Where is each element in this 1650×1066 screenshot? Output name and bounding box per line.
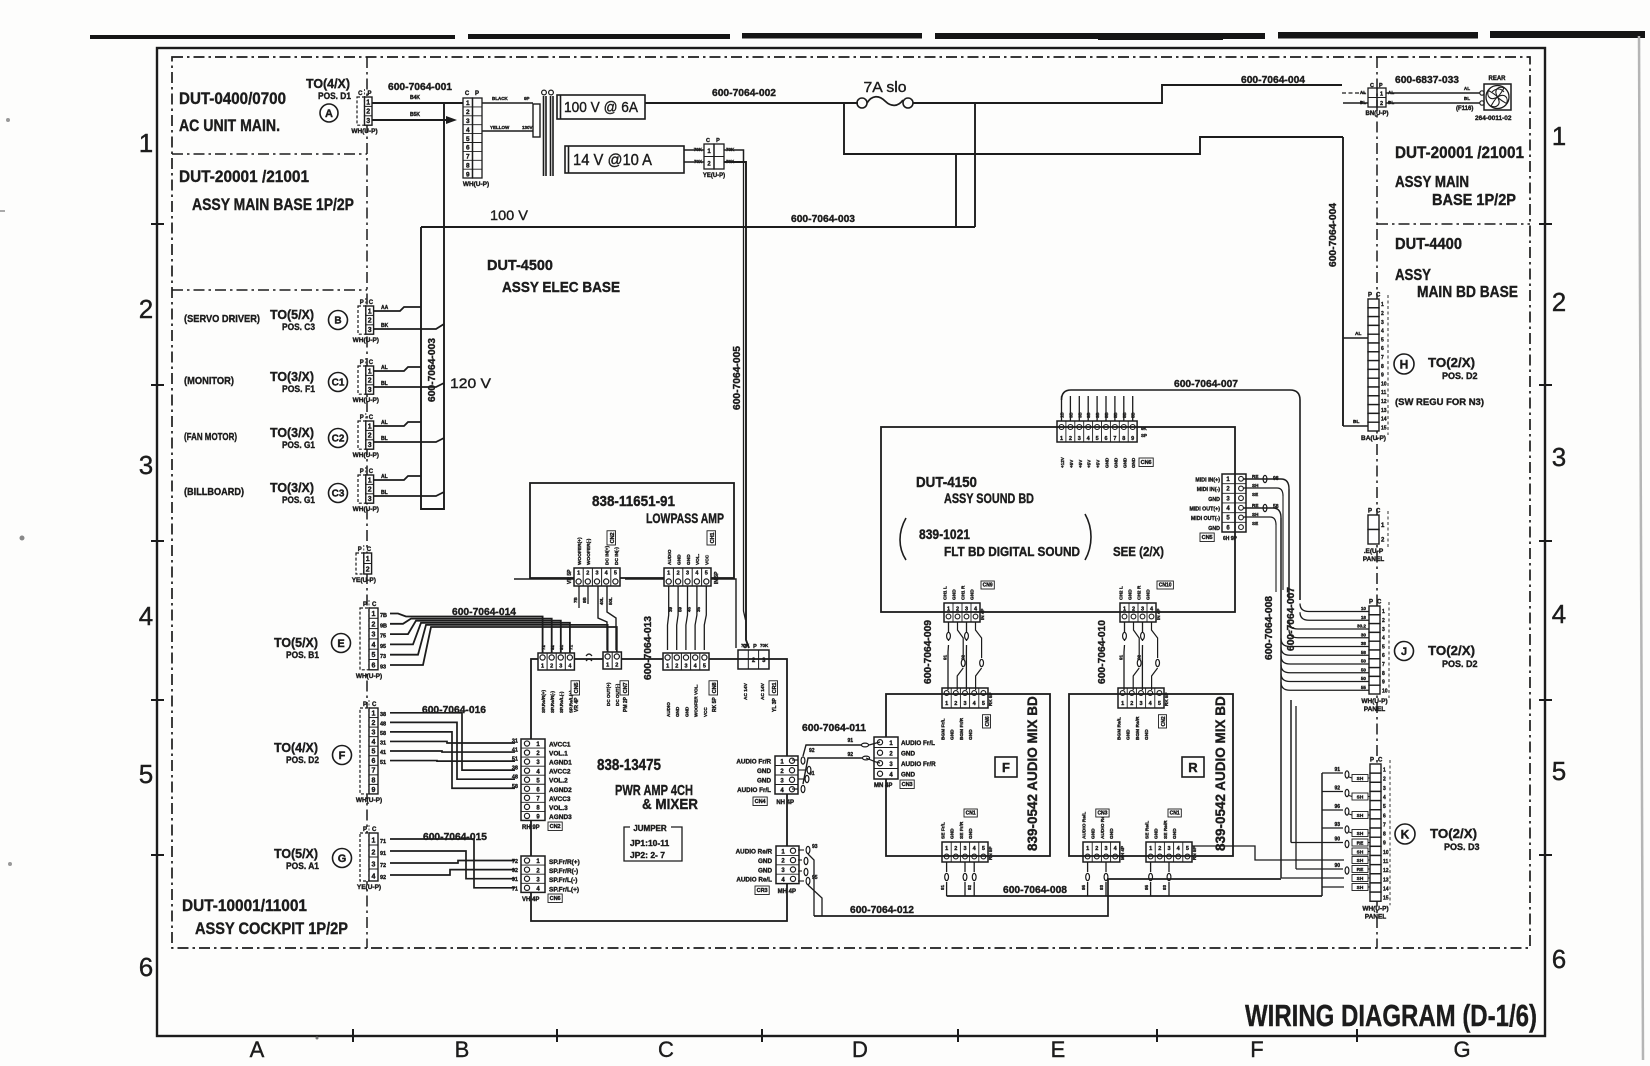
svg-text:1: 1 xyxy=(368,477,372,484)
svg-text:POS. D1: POS. D1 xyxy=(318,91,351,101)
svg-text:GND: GND xyxy=(1144,729,1150,740)
svg-text:ASSY COCKPIT 1P/2P: ASSY COCKPIT 1P/2P xyxy=(195,920,348,938)
svg-text:2: 2 xyxy=(466,109,470,116)
K feed verticals xyxy=(1281,688,1344,878)
svg-text:CN2: CN2 xyxy=(550,824,561,830)
wire 600-7064-012 bus xyxy=(814,879,1281,916)
svg-text:4: 4 xyxy=(372,873,376,880)
svg-text:30.2: 30.2 xyxy=(1357,624,1366,629)
svg-text:(SW REGU FOR N3): (SW REGU FOR N3) xyxy=(1395,397,1484,408)
svg-text:SH: SH xyxy=(1252,512,1259,517)
svg-text:41: 41 xyxy=(380,750,386,756)
svg-text:BLACK: BLACK xyxy=(492,96,508,101)
svg-text:+5V: +5V xyxy=(1096,459,1101,468)
AC unit box divider xyxy=(172,153,367,155)
svg-text:DC OUT(+): DC OUT(+) xyxy=(606,682,611,706)
svg-text:ASSY MAIN BASE 1P/2P: ASSY MAIN BASE 1P/2P xyxy=(192,196,354,214)
connector BN(U-P) fan xyxy=(1360,83,1394,117)
svg-text:YE(U-P): YE(U-P) xyxy=(703,173,725,179)
connector CN1 R board bottom labels xyxy=(1145,820,1179,839)
svg-text:C: C xyxy=(1376,293,1381,299)
svg-text:3: 3 xyxy=(1104,846,1107,852)
connector CN6 F board top labels xyxy=(941,717,975,740)
svg-text:GND: GND xyxy=(758,858,772,865)
svg-text:2: 2 xyxy=(372,621,376,628)
svg-text:8: 8 xyxy=(1383,832,1386,838)
svg-text:RE: RE xyxy=(1252,474,1258,479)
wire A pin1 to terminal block xyxy=(372,102,463,104)
svg-text:264-0011-02: 264-0011-02 xyxy=(1475,115,1512,122)
svg-text:2: 2 xyxy=(1380,101,1383,107)
CH1 lowpass pin labels xyxy=(667,549,711,565)
svg-text:BGM Fr/R: BGM Fr/R xyxy=(959,717,965,740)
svg-text:GND: GND xyxy=(1091,828,1097,839)
svg-text:WH(U-P): WH(U-P) xyxy=(353,452,379,459)
wire 100V@6A to fuse xyxy=(645,102,858,104)
label TO(5/X) POS. C3 xyxy=(270,307,315,332)
svg-text:SE: SE xyxy=(1252,521,1258,526)
svg-text:AL: AL xyxy=(1464,86,1470,91)
svg-text:92: 92 xyxy=(967,884,972,890)
svg-text:8: 8 xyxy=(372,777,376,784)
svg-text:600-7064-015: 600-7064-015 xyxy=(423,831,487,843)
svg-text:GND: GND xyxy=(1109,828,1115,839)
svg-text:PANEL: PANEL xyxy=(1364,706,1386,713)
svg-text:POS. A1: POS. A1 xyxy=(286,861,319,871)
svg-text:DUT-0400/0700: DUT-0400/0700 xyxy=(179,89,286,108)
svg-text:SEE (2/X): SEE (2/X) xyxy=(1113,544,1164,559)
svg-text:5: 5 xyxy=(982,846,985,852)
svg-text:7: 7 xyxy=(1381,355,1384,361)
svg-text:1: 1 xyxy=(366,99,370,106)
svg-text:600-7064-001: 600-7064-001 xyxy=(388,81,452,93)
svg-text:D: D xyxy=(852,1037,868,1062)
svg-text:BL: BL xyxy=(1353,419,1359,425)
svg-text:2: 2 xyxy=(368,378,372,385)
svg-text:POS. C3: POS. C3 xyxy=(282,322,315,332)
svg-text:3B: 3B xyxy=(1077,412,1082,418)
svg-text:6: 6 xyxy=(372,663,376,670)
wires BN connector to fan xyxy=(1386,86,1484,105)
svg-text:1: 1 xyxy=(1383,768,1386,774)
svg-text:GND: GND xyxy=(1154,828,1160,839)
svg-text:3: 3 xyxy=(372,632,376,639)
svg-text:2: 2 xyxy=(677,571,680,577)
connector YE(U-P) spare xyxy=(352,545,376,584)
svg-text:C: C xyxy=(1378,758,1383,764)
svg-text:C: C xyxy=(1376,509,1381,515)
svg-text:93: 93 xyxy=(812,844,818,850)
box 100V @ 6A xyxy=(557,95,645,119)
wires MIDI verticals down xyxy=(1276,489,1289,688)
svg-text:59: 59 xyxy=(677,606,682,612)
label 839-1021 FLT BD DIGITAL SOUND parens xyxy=(900,514,1091,560)
svg-text:5: 5 xyxy=(1226,516,1230,522)
svg-text:POS. F1: POS. F1 xyxy=(282,384,315,394)
CH1 boxed label xyxy=(707,531,716,545)
svg-text:8: 8 xyxy=(1381,364,1384,370)
wires C2 to AC bus xyxy=(374,420,444,442)
svg-text:P: P xyxy=(360,469,364,475)
svg-text:92: 92 xyxy=(809,748,815,754)
svg-text:CN6: CN6 xyxy=(550,896,561,902)
wire 600-7064-004 vertical run xyxy=(1342,137,1344,426)
svg-text:1: 1 xyxy=(1123,607,1126,613)
svg-text:92: 92 xyxy=(961,654,966,660)
svg-text:100 V @ 6A: 100 V @ 6A xyxy=(564,100,638,116)
svg-text:YL 3P: YL 3P xyxy=(772,698,778,712)
svg-text:1: 1 xyxy=(667,571,670,577)
svg-text:SP.Fr/R(+): SP.Fr/R(+) xyxy=(549,859,580,866)
svg-text:2: 2 xyxy=(1095,846,1098,852)
svg-text:POS. G1: POS. G1 xyxy=(282,440,315,450)
svg-text:95: 95 xyxy=(812,875,818,881)
svg-text:TO(2/X): TO(2/X) xyxy=(1428,643,1475,658)
svg-text:AGND2: AGND2 xyxy=(549,787,572,794)
box DUT-4150 ASSY SOUND BD xyxy=(881,427,1235,612)
svg-text:GND: GND xyxy=(1105,457,1110,468)
svg-text:100 V: 100 V xyxy=(490,207,529,223)
svg-text:1: 1 xyxy=(368,308,372,315)
svg-text:91: 91 xyxy=(559,644,564,650)
svg-text:VH 4P: VH 4P xyxy=(522,897,539,903)
svg-text:1: 1 xyxy=(666,664,669,670)
svg-text:SH: SH xyxy=(1357,850,1364,856)
wire fuse to right step xyxy=(913,85,1342,103)
svg-text:CN9: CN9 xyxy=(983,583,993,589)
svg-text:58: 58 xyxy=(1361,650,1367,655)
svg-text:58: 58 xyxy=(380,731,386,737)
row tick marks right xyxy=(1539,224,1552,855)
svg-text:CN6: CN6 xyxy=(1141,460,1152,466)
svg-text:95: 95 xyxy=(380,644,386,650)
label TO(3/X) POS. G1 xyxy=(270,480,315,505)
svg-text:C1: C1 xyxy=(332,378,345,389)
svg-text:95: 95 xyxy=(1144,884,1149,890)
svg-text:2: 2 xyxy=(1130,701,1133,707)
svg-text:RE: RE xyxy=(1252,503,1258,508)
svg-text:TO(2/X): TO(2/X) xyxy=(1430,826,1477,841)
svg-text:P: P xyxy=(360,300,364,306)
svg-text:A: A xyxy=(325,108,333,120)
CN6 amp wire numbers xyxy=(512,859,518,892)
svg-text:DC IN(+): DC IN(+) xyxy=(605,546,611,565)
svg-text:B4K: B4K xyxy=(410,95,420,101)
svg-text:11: 11 xyxy=(1381,390,1387,396)
svg-text:GND: GND xyxy=(970,589,976,600)
bead wires R board bottoms to bus xyxy=(1081,862,1171,896)
label TO(2/X) POS.D2 for J xyxy=(1428,643,1478,669)
svg-text:GND: GND xyxy=(1126,729,1132,740)
CN5 midi labels xyxy=(1190,478,1221,532)
svg-text:TO(3/X): TO(3/X) xyxy=(270,480,314,495)
svg-text:P: P xyxy=(358,547,362,553)
svg-text:4: 4 xyxy=(1381,329,1384,335)
connector CN9 sound CH1 xyxy=(944,603,980,622)
connector H BA(U-P) xyxy=(1361,293,1388,443)
svg-text:7B: 7B xyxy=(380,613,387,619)
svg-text:AVCC1: AVCC1 xyxy=(549,742,571,749)
svg-text:600-7064-004: 600-7064-004 xyxy=(1328,203,1339,267)
box AUDIO MIX BD R xyxy=(1069,694,1233,856)
svg-text:AUDIO: AUDIO xyxy=(666,702,671,717)
svg-text:7: 7 xyxy=(1383,822,1386,828)
node J xyxy=(1395,642,1414,661)
svg-text:8: 8 xyxy=(1122,436,1125,442)
svg-text:VOL.: VOL. xyxy=(695,554,701,565)
svg-text:AUDIO Fr/L: AUDIO Fr/L xyxy=(901,740,935,747)
svg-text:1: 1 xyxy=(1060,436,1063,442)
svg-text:IN 4P: IN 4P xyxy=(1156,609,1161,621)
svg-text:72: 72 xyxy=(380,863,386,869)
svg-text:YE(U-P): YE(U-P) xyxy=(352,577,376,584)
svg-text:1: 1 xyxy=(1381,302,1384,308)
svg-text:35: 35 xyxy=(696,606,701,612)
svg-text:GND: GND xyxy=(1172,828,1178,839)
connector CN10 sound CH2 labels xyxy=(1119,585,1152,600)
svg-text:CN3: CN3 xyxy=(1097,811,1107,817)
svg-text:1: 1 xyxy=(945,701,948,707)
svg-text:38: 38 xyxy=(380,712,386,718)
svg-text:8: 8 xyxy=(1382,671,1385,677)
svg-text:2: 2 xyxy=(615,663,618,669)
row labels right 1-6 xyxy=(1552,121,1566,974)
svg-text:VOL.1: VOL.1 xyxy=(549,751,568,758)
svg-text:5: 5 xyxy=(1158,701,1161,707)
svg-text:AGND3: AGND3 xyxy=(549,814,572,821)
svg-text:SP.Fr/L(-): SP.Fr/L(-) xyxy=(549,877,577,884)
svg-text:93: 93 xyxy=(1162,884,1167,890)
svg-text:SP.Re/R(-): SP.Re/R(-) xyxy=(550,691,555,713)
CN3 F labels xyxy=(901,740,936,779)
svg-text:5B: 5B xyxy=(1113,412,1118,418)
midi bead wires to bus xyxy=(1244,474,1290,526)
CN2 amp pin labels xyxy=(549,742,572,821)
connector CN1 F board bottom boxed label xyxy=(964,809,977,817)
svg-text:P: P xyxy=(363,602,367,608)
svg-text:1: 1 xyxy=(1226,477,1230,483)
svg-text:70K: 70K xyxy=(760,643,769,648)
K stub wires with shields xyxy=(1291,767,1370,891)
svg-text:2: 2 xyxy=(372,720,376,727)
svg-text:C: C xyxy=(372,702,377,708)
svg-text:YELLOW: YELLOW xyxy=(490,125,510,130)
row labels left 1-6 xyxy=(139,128,153,982)
svg-text:4: 4 xyxy=(1383,795,1386,801)
svg-text:SE Fr/L: SE Fr/L xyxy=(941,822,947,839)
svg-text:AVCC3: AVCC3 xyxy=(549,796,571,803)
svg-text:9: 9 xyxy=(466,171,470,178)
svg-text:DUT-20001 /21001: DUT-20001 /21001 xyxy=(1395,144,1524,162)
svg-text:NH 4P: NH 4P xyxy=(776,800,794,806)
svg-text:1: 1 xyxy=(606,663,609,669)
svg-text:2: 2 xyxy=(956,607,959,613)
svg-text:C: C xyxy=(706,138,710,144)
CN7 pin labels xyxy=(606,682,620,706)
svg-text:WIRING DIAGRAM (D-1/6): WIRING DIAGRAM (D-1/6) xyxy=(1245,998,1537,1033)
svg-text:1: 1 xyxy=(368,423,372,430)
connector CN2 R board top xyxy=(1118,688,1164,708)
wires C3 to AC bus xyxy=(374,474,444,496)
svg-text:2: 2 xyxy=(1381,537,1385,543)
svg-text:14 V @10 A: 14 V @10 A xyxy=(573,152,653,169)
svg-text:TO(4/X): TO(4/X) xyxy=(306,76,350,91)
svg-text:11: 11 xyxy=(1383,859,1389,865)
svg-text:RE: RE xyxy=(1357,867,1364,873)
svg-text:IN 5P: IN 5P xyxy=(714,571,720,584)
CN6 sound bd pin function labels xyxy=(1060,456,1136,468)
terminal block 9P WH(U-P) xyxy=(463,91,489,188)
svg-text:5: 5 xyxy=(982,701,985,707)
svg-text:3: 3 xyxy=(559,664,562,670)
svg-text:3: 3 xyxy=(684,664,687,670)
connector E WH(U-P) xyxy=(356,600,382,680)
CN5 midi boxed label xyxy=(1200,533,1238,542)
CN8 amp xyxy=(663,653,709,670)
connector A WH(U-P) xyxy=(351,89,377,135)
CN3 F board xyxy=(874,737,898,779)
svg-text:DC OUT(-): DC OUT(-) xyxy=(615,683,620,706)
svg-text:2: 2 xyxy=(372,849,376,856)
svg-text:1: 1 xyxy=(139,128,153,158)
svg-text:5: 5 xyxy=(372,652,376,659)
connector CN2 R board top boxed label xyxy=(1159,715,1168,728)
svg-text:WOOFER(+): WOOFER(+) xyxy=(577,537,583,565)
svg-text:3: 3 xyxy=(1383,786,1386,792)
svg-text:CN6: CN6 xyxy=(985,716,991,726)
CN2 lowpass pin labels xyxy=(577,537,620,565)
svg-text:15: 15 xyxy=(1381,425,1387,431)
svg-text:2: 2 xyxy=(1552,287,1566,317)
svg-text:7: 7 xyxy=(466,154,470,161)
svg-text:30: 30 xyxy=(1361,632,1367,637)
svg-text:48: 48 xyxy=(380,722,386,728)
svg-text:5: 5 xyxy=(139,759,153,789)
svg-text:C: C xyxy=(465,91,470,97)
svg-text:45: 45 xyxy=(687,606,692,612)
CR3 bottom labels xyxy=(755,886,796,895)
svg-text:4: 4 xyxy=(466,127,470,134)
svg-text:51: 51 xyxy=(380,760,386,766)
svg-text:POS. D2: POS. D2 xyxy=(1442,371,1478,381)
svg-text:CN7: CN7 xyxy=(623,682,629,693)
svg-text:K: K xyxy=(1401,827,1410,841)
svg-text:ASSY ELEC BASE: ASSY ELEC BASE xyxy=(502,279,620,296)
svg-text:2: 2 xyxy=(368,433,372,440)
connector G YE(U-P) xyxy=(357,825,381,891)
svg-text:WOOFER(-): WOOFER(-) xyxy=(586,538,592,565)
svg-text:WH(U-P): WH(U-P) xyxy=(463,181,489,188)
svg-text:H: H xyxy=(1400,357,1409,371)
svg-text:GND: GND xyxy=(758,867,772,874)
svg-text:4: 4 xyxy=(372,739,376,746)
svg-text:600-7064-003: 600-7064-003 xyxy=(427,338,438,402)
svg-text:WOOFER VOL.: WOOFER VOL. xyxy=(694,684,699,717)
svg-text:4: 4 xyxy=(1087,436,1091,442)
svg-text:92: 92 xyxy=(1334,786,1340,792)
J fan-in wires xyxy=(1281,604,1369,691)
svg-text:SH: SH xyxy=(1357,831,1364,837)
row tick marks left xyxy=(151,224,164,855)
svg-text:CN1: CN1 xyxy=(1170,811,1180,817)
svg-text:14: 14 xyxy=(1383,886,1389,892)
svg-text:MIDI OUT(-): MIDI OUT(-) xyxy=(1191,516,1220,522)
connector CN9 sound CH1 labels xyxy=(943,585,976,600)
svg-text:GND: GND xyxy=(950,828,956,839)
svg-text:93: 93 xyxy=(1099,884,1104,890)
svg-text:MIDI OUT(+): MIDI OUT(+) xyxy=(1190,506,1221,512)
svg-text:14: 14 xyxy=(1381,417,1387,423)
svg-text:VR 5P: VR 5P xyxy=(567,569,573,584)
svg-text:C: C xyxy=(1377,600,1382,606)
svg-text:VCC: VCC xyxy=(703,707,708,717)
svg-text:1: 1 xyxy=(707,149,711,155)
svg-text:PM 2P: PM 2P xyxy=(623,696,629,712)
svg-text:CN5: CN5 xyxy=(574,682,580,693)
transformer primary winding xyxy=(533,104,540,137)
svg-text:(BILLBOARD): (BILLBOARD) xyxy=(184,486,244,498)
svg-text:P: P xyxy=(1369,600,1373,606)
svg-text:5: 5 xyxy=(705,571,708,577)
svg-text:+5V: +5V xyxy=(1078,459,1083,468)
svg-text:CN5: CN5 xyxy=(1202,535,1213,541)
wires G to amp CN6 xyxy=(390,839,515,888)
connector CN3 R board bottom labels xyxy=(1082,811,1116,839)
svg-text:SE Re/R: SE Re/R xyxy=(1163,820,1169,839)
svg-text:POS. D2: POS. D2 xyxy=(286,755,319,765)
svg-text:AUDIO Re/L: AUDIO Re/L xyxy=(1082,812,1088,839)
wire AL stub into H xyxy=(1343,331,1368,338)
connector CN5 midi xyxy=(1222,474,1246,532)
svg-text:2: 2 xyxy=(368,318,372,325)
CR1 pin labels xyxy=(743,682,766,700)
svg-text:CN2: CN2 xyxy=(610,532,616,543)
svg-text:DC IN(-): DC IN(-) xyxy=(614,547,620,565)
svg-text:600-7064-009: 600-7064-009 xyxy=(923,620,934,684)
svg-text:GND: GND xyxy=(1128,589,1134,600)
fan 264-0011-02 xyxy=(1456,76,1512,122)
wire tap from lower line xyxy=(955,154,957,227)
svg-text:ASSY SOUND BD: ASSY SOUND BD xyxy=(944,491,1034,506)
bead wires F board bottom to 008 bus xyxy=(940,862,1322,896)
svg-text:TO(5/X): TO(5/X) xyxy=(274,635,318,650)
svg-text:7: 7 xyxy=(372,768,376,775)
svg-text:91: 91 xyxy=(1334,767,1340,773)
svg-text:92: 92 xyxy=(380,875,386,881)
main dash-dot boundary xyxy=(172,57,1530,948)
svg-text:600-7064-007: 600-7064-007 xyxy=(1286,587,1297,651)
svg-text:2: 2 xyxy=(954,846,957,852)
svg-text:3: 3 xyxy=(595,571,598,577)
svg-text:5: 5 xyxy=(466,136,470,143)
CN6 amp xyxy=(521,856,545,892)
transformer core xyxy=(542,90,554,176)
svg-text:SP.Re/R(+): SP.Re/R(+) xyxy=(541,690,546,713)
svg-text:SP.Fr/L(+): SP.Fr/L(+) xyxy=(549,886,579,893)
svg-text:1: 1 xyxy=(947,607,950,613)
box LOWPASS AMP 838-11651-91 xyxy=(530,483,734,578)
box AUDIO MIX BD F xyxy=(886,694,1050,856)
svg-text:12: 12 xyxy=(1381,399,1387,405)
svg-text:SH: SH xyxy=(1357,858,1364,864)
svg-text:C: C xyxy=(367,547,372,553)
svg-text:9: 9 xyxy=(1381,373,1384,379)
svg-text:3: 3 xyxy=(1226,496,1230,502)
svg-text:JUMPER: JUMPER xyxy=(633,824,667,833)
svg-text:9B: 9B xyxy=(582,596,587,603)
svg-text:130V: 130V xyxy=(522,125,533,130)
CN5 boxed label xyxy=(571,681,580,695)
